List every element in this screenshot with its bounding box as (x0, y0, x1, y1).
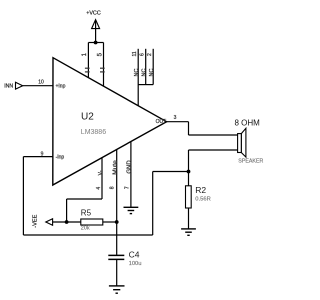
svg-text:R5: R5 (81, 208, 92, 217)
svg-text:LM3886: LM3886 (81, 129, 106, 136)
svg-text:0.56R: 0.56R (195, 197, 210, 203)
svg-text:9: 9 (41, 151, 44, 157)
svg-text:100u: 100u (129, 261, 142, 267)
svg-text:SPEAKER: SPEAKER (238, 159, 263, 165)
svg-text:NC: NC (149, 69, 155, 77)
svg-text:+VCC: +VCC (86, 11, 101, 17)
svg-text:NC: NC (142, 69, 148, 77)
svg-text:11: 11 (132, 51, 138, 56)
svg-text:6: 6 (140, 53, 146, 56)
svg-text:20k: 20k (81, 225, 90, 231)
svg-text:-Inp: -Inp (56, 155, 65, 161)
svg-text:-VEE: -VEE (33, 214, 39, 227)
svg-text:C4: C4 (129, 250, 140, 260)
svg-text:7: 7 (125, 186, 131, 189)
svg-text:10: 10 (38, 80, 44, 86)
svg-text:INN: INN (4, 83, 13, 89)
svg-text:V-: V- (98, 170, 104, 175)
svg-text:NC: NC (134, 69, 140, 77)
svg-text:3: 3 (174, 115, 177, 121)
svg-text:OUT: OUT (156, 119, 167, 125)
svg-text:U2: U2 (81, 112, 94, 123)
svg-text:GND: GND (127, 160, 133, 174)
svg-text:8: 8 (110, 186, 116, 189)
svg-text:R2: R2 (195, 185, 206, 195)
svg-text:+Inp: +Inp (56, 83, 66, 89)
svg-text:8 OHM: 8 OHM (235, 118, 261, 127)
svg-text:Mute: Mute (112, 160, 119, 175)
svg-text:2: 2 (147, 53, 153, 56)
svg-text:4: 4 (96, 187, 102, 190)
